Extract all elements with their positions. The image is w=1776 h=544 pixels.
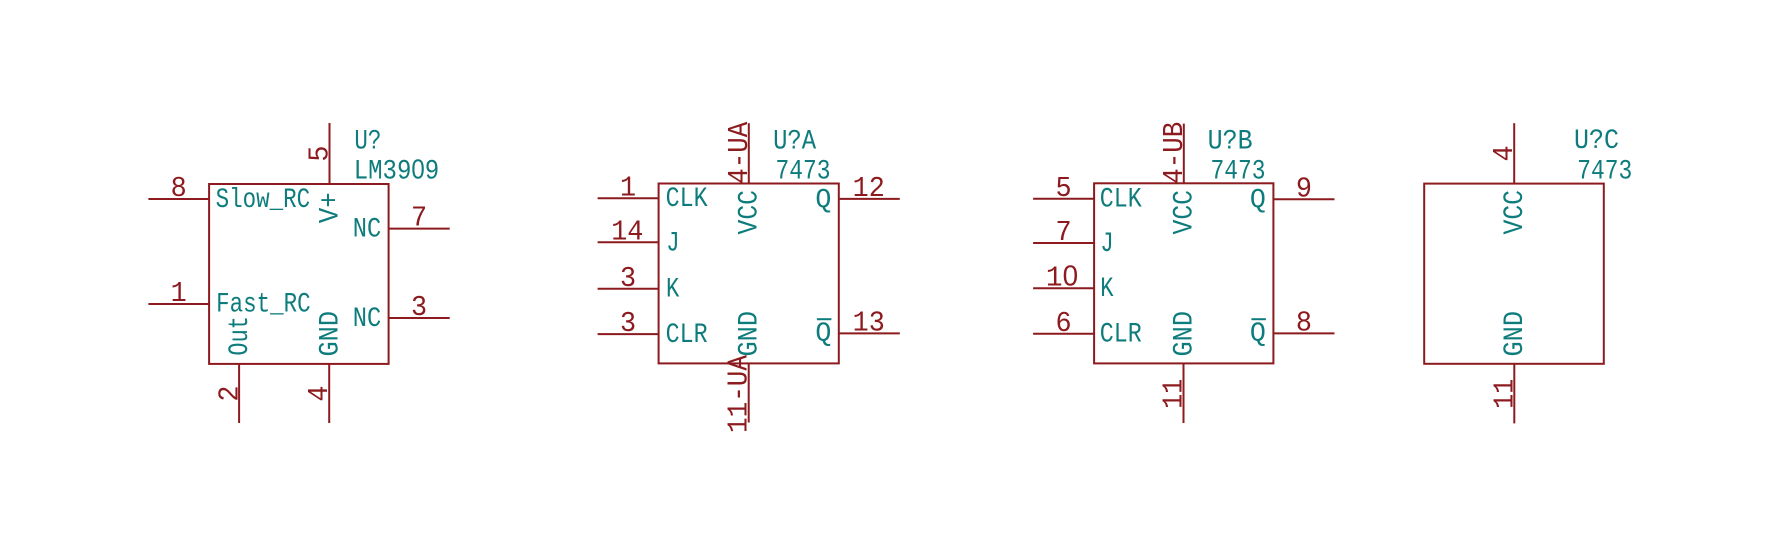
pin 11 GND wire (U?A) bbox=[748, 363, 750, 422]
pin 1 Fast_RC wire bbox=[148, 303, 209, 305]
pin 3 NC wire bbox=[389, 317, 450, 319]
pin 3 K wire (U?A) bbox=[598, 288, 659, 290]
svg-text:3: 3 bbox=[620, 262, 636, 295]
svg-text:Slow_RC: Slow_RC bbox=[216, 185, 311, 216]
svg-text:V+: V+ bbox=[315, 192, 346, 223]
svg-text:Q: Q bbox=[815, 319, 831, 350]
pin 13 Qbar wire (U?A) bbox=[839, 332, 900, 334]
svg-text:Q: Q bbox=[1250, 185, 1266, 216]
svg-text:Q: Q bbox=[815, 185, 831, 216]
svg-text:8: 8 bbox=[1296, 307, 1312, 340]
pin 6 CLR wire (U?B) bbox=[1033, 333, 1094, 335]
svg-text:6: 6 bbox=[1056, 307, 1072, 340]
flip-flop U?B 7473 body bbox=[1094, 183, 1273, 363]
flip-flop U?A 7473 body bbox=[659, 184, 839, 364]
svg-text:LM3909: LM3909 bbox=[354, 153, 440, 187]
svg-text:CLR: CLR bbox=[1100, 320, 1142, 351]
pin 4 VCC wire (U?C) bbox=[1513, 123, 1515, 183]
svg-text:2: 2 bbox=[213, 386, 246, 402]
power unit U?C 7473 body bbox=[1424, 184, 1604, 364]
svg-text:1: 1 bbox=[171, 277, 187, 310]
svg-text:9: 9 bbox=[1296, 172, 1312, 205]
svg-text:K: K bbox=[666, 275, 679, 306]
svg-text:VCC: VCC bbox=[735, 190, 766, 235]
svg-text:U?B: U?B bbox=[1208, 127, 1253, 158]
svg-text:4: 4 bbox=[303, 386, 336, 402]
svg-text:GND: GND bbox=[315, 311, 346, 357]
svg-text:VCC: VCC bbox=[1500, 190, 1531, 235]
svg-text:U?: U? bbox=[354, 127, 381, 158]
svg-text:7: 7 bbox=[411, 202, 427, 235]
pin 4 GND wire bbox=[328, 364, 330, 423]
svg-text:10: 10 bbox=[1046, 260, 1078, 294]
svg-text:CLR: CLR bbox=[666, 320, 708, 351]
svg-text:11-UA: 11-UA bbox=[723, 354, 756, 433]
pin 8 Slow_RC wire bbox=[148, 198, 209, 200]
pin 8 Qbar wire (U?B) bbox=[1273, 332, 1334, 334]
svg-text:7473: 7473 bbox=[1577, 157, 1632, 188]
overline of Qbar (U?B) bbox=[1251, 318, 1266, 320]
pin 7 NC wire bbox=[389, 228, 450, 230]
svg-text:14: 14 bbox=[611, 215, 643, 248]
pin 10 K wire (U?B) bbox=[1033, 287, 1094, 289]
svg-text:13: 13 bbox=[853, 307, 885, 340]
pin 5 V+ wire bbox=[329, 123, 331, 184]
svg-text:NC: NC bbox=[353, 304, 382, 335]
svg-text:8: 8 bbox=[171, 172, 187, 205]
svg-text:VCC: VCC bbox=[1170, 190, 1201, 235]
svg-text:Out: Out bbox=[225, 316, 256, 356]
svg-text:NC: NC bbox=[353, 214, 382, 245]
svg-text:Q: Q bbox=[1250, 319, 1266, 350]
svg-text:J: J bbox=[1100, 229, 1113, 260]
pin 11 GND wire (U?B) bbox=[1183, 363, 1185, 423]
op-amp U? LM3909 body bbox=[209, 184, 389, 364]
svg-text:3: 3 bbox=[411, 291, 427, 324]
svg-text:7473: 7473 bbox=[1211, 157, 1266, 188]
pin 7 J wire (U?B) bbox=[1033, 242, 1094, 244]
pin 1 CLK wire (U?A) bbox=[598, 197, 659, 199]
pin 4 VCC wire (U?B) bbox=[1183, 124, 1185, 184]
svg-text:U?A: U?A bbox=[773, 126, 816, 157]
svg-text:K: K bbox=[1100, 274, 1113, 305]
pin 11 GND wire (U?C) bbox=[1513, 364, 1515, 424]
pin 2 Out wire bbox=[238, 364, 240, 423]
svg-text:7: 7 bbox=[1056, 216, 1072, 249]
svg-text:11: 11 bbox=[1488, 379, 1521, 409]
svg-text:CLK: CLK bbox=[666, 184, 708, 215]
svg-text:5: 5 bbox=[1056, 172, 1072, 205]
svg-text:3: 3 bbox=[620, 307, 636, 340]
svg-text:U?C: U?C bbox=[1574, 126, 1619, 157]
svg-text:GND: GND bbox=[735, 311, 766, 357]
svg-text:4-UB: 4-UB bbox=[1158, 122, 1191, 184]
pin 5 CLK wire (U?B) bbox=[1033, 198, 1094, 200]
pin 12 Q wire (U?A) bbox=[839, 198, 900, 200]
svg-text:12: 12 bbox=[853, 172, 885, 205]
pin 3 CLR wire (U?A) bbox=[598, 333, 659, 335]
svg-text:1: 1 bbox=[620, 171, 636, 204]
svg-text:4-UA: 4-UA bbox=[723, 121, 756, 184]
overline of Qbar (U?A) bbox=[817, 318, 832, 320]
svg-text:7473: 7473 bbox=[776, 157, 831, 188]
svg-text:J: J bbox=[666, 228, 679, 259]
svg-text:11: 11 bbox=[1158, 379, 1191, 409]
pin 14 J wire (U?A) bbox=[598, 241, 659, 243]
svg-text:4: 4 bbox=[1488, 145, 1521, 161]
pin 4 VCC wire (U?A) bbox=[748, 123, 750, 183]
svg-text:Fast_RC: Fast_RC bbox=[216, 290, 311, 321]
svg-text:5: 5 bbox=[303, 146, 336, 162]
svg-text:GND: GND bbox=[1500, 311, 1531, 357]
pin 9 Q wire (U?B) bbox=[1273, 198, 1334, 200]
svg-text:GND: GND bbox=[1169, 311, 1200, 357]
svg-text:CLK: CLK bbox=[1100, 185, 1142, 216]
